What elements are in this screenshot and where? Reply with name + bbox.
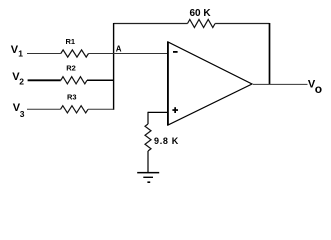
- svg-text:o: o: [315, 82, 322, 96]
- resistor R3 zigzag: [61, 106, 89, 113]
- svg-text:3: 3: [20, 109, 25, 119]
- svg-text:2: 2: [19, 76, 24, 86]
- op-amp plus sign: [172, 109, 178, 111]
- op-amp left edge emphasis: [167, 42, 169, 126]
- wire plus input down to resistor: [147, 112, 149, 124]
- wire feedback top right segment: [215, 23, 269, 25]
- svg-text:A: A: [116, 45, 122, 54]
- wire V3 to R3: [27, 108, 61, 110]
- wire node A to op-amp minus input: [114, 53, 168, 55]
- wire V2 to R2 (bold): [28, 79, 61, 81]
- resistor R_f 60K zigzag: [188, 20, 216, 28]
- svg-text:1: 1: [18, 49, 23, 59]
- svg-text:R1: R1: [66, 37, 76, 46]
- wire R1 to node: [89, 53, 114, 55]
- wire op-amp output: [253, 83, 308, 85]
- svg-text:60 K: 60 K: [190, 8, 212, 19]
- svg-text:R3: R3: [67, 92, 77, 101]
- wire feedback vertical right: [269, 23, 271, 84]
- wire op-amp plus input: [148, 111, 168, 113]
- wire V1 to R1: [27, 53, 61, 55]
- ground symbol: [137, 172, 159, 174]
- wire resistor to ground: [147, 151, 149, 172]
- resistor R1 zigzag: [61, 50, 89, 57]
- resistor 9.8K vertical zigzag: [145, 124, 151, 151]
- resistor R2 zigzag: [61, 77, 87, 84]
- op-amp minus sign: [173, 51, 178, 53]
- wire summing node vertical: [113, 23, 115, 110]
- svg-text:9.8 K: 9.8 K: [154, 136, 179, 146]
- wire R3 to node: [88, 108, 114, 110]
- wire feedback top left segment: [114, 23, 188, 25]
- op-amp U1 triangle: [168, 42, 252, 125]
- wire R2 to node (bold): [87, 79, 114, 81]
- svg-text:R2: R2: [66, 64, 76, 73]
